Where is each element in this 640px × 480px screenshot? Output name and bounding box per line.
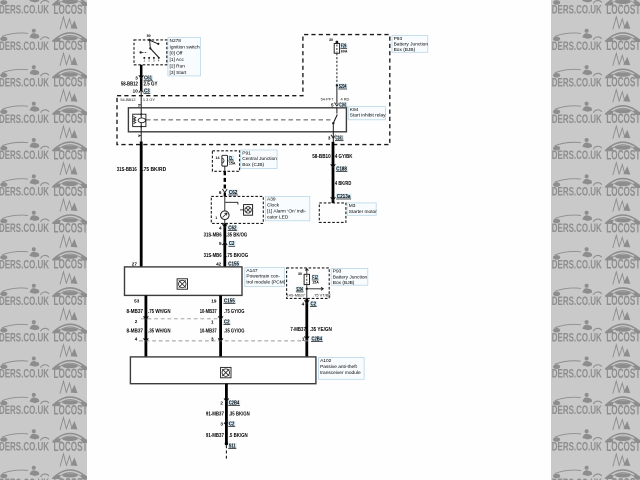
svg-text:5: 5	[219, 241, 222, 246]
svg-text:1.3 GY: 1.3 GY	[143, 97, 156, 102]
svg-text:53: 53	[134, 298, 140, 303]
svg-text:[1] Acc: [1] Acc	[170, 57, 185, 63]
svg-text:15A: 15A	[229, 162, 236, 166]
svg-text:2.5 GY: 2.5 GY	[144, 82, 159, 88]
svg-text:7-MB37: 7-MB37	[290, 327, 306, 333]
svg-text:3: 3	[135, 76, 138, 81]
svg-text:.35 BK/GN: .35 BK/GN	[229, 412, 250, 418]
svg-text:Battery Junction: Battery Junction	[333, 274, 368, 280]
svg-text:42: 42	[216, 262, 222, 267]
svg-text:19: 19	[211, 298, 217, 303]
svg-text:Starter motor: Starter motor	[349, 209, 377, 215]
svg-text:.35 GY/OG: .35 GY/OG	[224, 328, 245, 334]
svg-text:Start inhibit relay: Start inhibit relay	[350, 113, 386, 119]
svg-text:Passive anti-theft: Passive anti-theft	[320, 364, 357, 370]
svg-text:31S-MB6: 31S-MB6	[204, 233, 222, 239]
svg-text:.35 BK/OG: .35 BK/OG	[226, 233, 247, 239]
svg-text:10: 10	[133, 89, 139, 94]
svg-text:3: 3	[328, 136, 331, 141]
svg-text:6: 6	[219, 190, 222, 195]
svg-text:4 BK/RD: 4 BK/RD	[335, 181, 352, 187]
svg-text:50: 50	[147, 34, 151, 38]
svg-text:.75 WH/GN: .75 WH/GN	[148, 309, 171, 315]
svg-text:15A: 15A	[312, 281, 319, 285]
svg-text:.75 GY/OG: .75 GY/OG	[224, 309, 245, 315]
svg-text:Clock: Clock	[267, 203, 280, 209]
svg-text:58-BB12: 58-BB12	[121, 82, 138, 88]
svg-text:2: 2	[220, 400, 223, 405]
svg-text:[0] Off: [0] Off	[170, 51, 184, 57]
svg-text:1: 1	[138, 103, 140, 107]
svg-text:K94: K94	[350, 107, 359, 113]
svg-text:30: 30	[298, 272, 302, 276]
svg-text:60A: 60A	[341, 49, 348, 53]
svg-text:30: 30	[329, 38, 333, 42]
svg-text:Central Junction: Central Junction	[242, 156, 277, 162]
svg-text:.75 BK/RD: .75 BK/RD	[142, 167, 166, 173]
svg-text:5: 5	[331, 103, 334, 108]
svg-text:N278: N278	[170, 38, 182, 44]
svg-text:54-BB12: 54-BB12	[120, 97, 135, 102]
svg-text:31S-BB16: 31S-BB16	[117, 167, 137, 173]
svg-text:54-PF7: 54-PF7	[321, 97, 334, 102]
svg-text:10-MB37: 10-MB37	[200, 309, 217, 315]
svg-text:4 RD: 4 RD	[341, 97, 350, 102]
svg-text:27: 27	[132, 262, 138, 267]
svg-text:[2] Run: [2] Run	[170, 64, 186, 70]
svg-text:Box (BJB): Box (BJB)	[333, 280, 355, 286]
svg-text:4: 4	[302, 302, 305, 307]
svg-text:4: 4	[219, 225, 222, 230]
svg-text:Battery Junction: Battery Junction	[394, 41, 429, 47]
svg-text:Powertrain con-: Powertrain con-	[246, 274, 280, 280]
svg-text:.75 BK/OG: .75 BK/OG	[226, 253, 248, 259]
svg-text:Box (CJB): Box (CJB)	[242, 162, 264, 168]
svg-text:1: 1	[211, 320, 214, 325]
svg-text:4 GY/BK: 4 GY/BK	[335, 154, 353, 160]
svg-text:M3: M3	[349, 203, 356, 209]
svg-text:.5 BK/GN: .5 BK/GN	[229, 433, 248, 439]
svg-text:2: 2	[135, 319, 138, 324]
svg-text:Ignition switch: Ignition switch	[170, 44, 200, 50]
svg-text:cator LED: cator LED	[267, 214, 289, 220]
svg-text:4: 4	[135, 337, 138, 342]
svg-text:trol module (PCM): trol module (PCM)	[246, 280, 285, 286]
svg-text:P93: P93	[394, 36, 403, 42]
svg-text:8-MB37: 8-MB37	[127, 328, 144, 334]
svg-text:P91: P91	[242, 150, 251, 156]
svg-text:P93: P93	[333, 269, 342, 275]
svg-text:1: 1	[138, 134, 140, 138]
svg-text:[3] Start: [3] Start	[170, 70, 187, 76]
svg-text:A147: A147	[246, 268, 258, 274]
svg-text:[1] Alarm ‘On’ indi-: [1] Alarm ‘On’ indi-	[267, 209, 306, 215]
svg-text:.75 VT/BK: .75 VT/BK	[313, 293, 331, 298]
svg-text:.35 WH/GN: .35 WH/GN	[148, 328, 171, 334]
svg-text:Box (BJB): Box (BJB)	[394, 47, 416, 53]
svg-text:transceiver module: transceiver module	[320, 370, 361, 376]
svg-text:31S-MB6: 31S-MB6	[204, 253, 222, 259]
svg-text:14S-MB37: 14S-MB37	[287, 293, 305, 298]
svg-text:91-MB37: 91-MB37	[206, 433, 224, 439]
svg-text:58-BB10: 58-BB10	[312, 154, 331, 160]
svg-text:1: 1	[215, 216, 217, 220]
svg-text:14: 14	[216, 156, 220, 160]
svg-text:3: 3	[220, 421, 223, 426]
svg-text:10-MB37: 10-MB37	[200, 328, 217, 334]
svg-text:A39: A39	[267, 197, 276, 203]
svg-text:A102: A102	[320, 358, 332, 364]
svg-text:8-MB37: 8-MB37	[127, 309, 144, 315]
svg-text:91-MB37: 91-MB37	[206, 412, 224, 418]
svg-text:3: 3	[211, 337, 214, 342]
svg-text:.35 YE/GN: .35 YE/GN	[310, 327, 332, 333]
